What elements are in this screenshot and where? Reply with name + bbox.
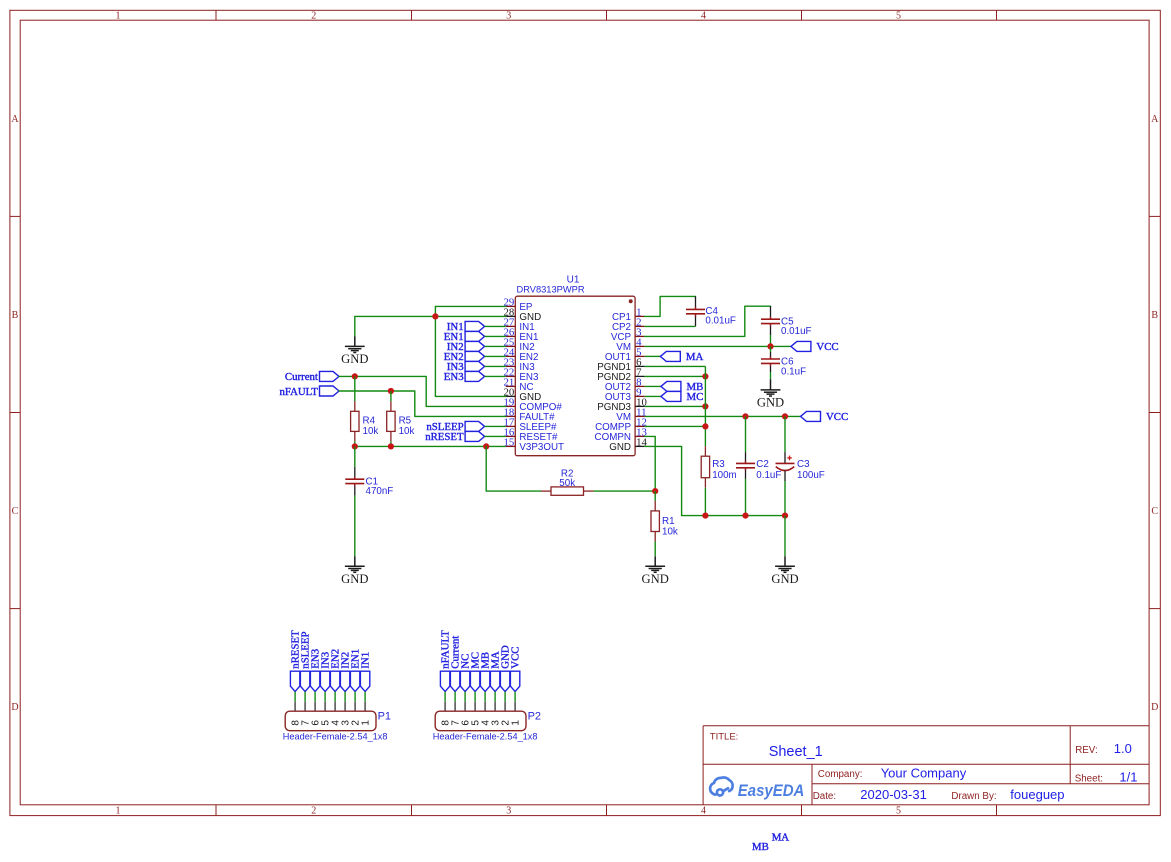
wire IN2 flag to pin — [485, 345, 506, 347]
U1 right pin 1 CP1 — [635, 315, 645, 317]
netflag NC on header P2 pin 6 — [460, 671, 469, 691]
svg-text:P1: P1 — [378, 710, 391, 722]
header P1 pin 3 lead — [344, 702, 346, 711]
svg-text:VCC: VCC — [826, 411, 848, 423]
junction rail/R5 — [388, 443, 394, 449]
wire OUT3 pin9 to MC flag — [645, 395, 661, 397]
svg-text:nFAULT: nFAULT — [279, 386, 318, 398]
svg-text:GND: GND — [642, 572, 669, 586]
resistor R5 leads — [390, 401, 392, 411]
netflag Current on header P2 pin 7 — [450, 671, 459, 691]
wire VM pin11 to VCC flag lower — [645, 415, 801, 417]
wire header P1 pin 6 — [314, 692, 316, 702]
junction rail/C3 — [782, 513, 788, 519]
svg-text:C2: C2 — [756, 459, 769, 470]
svg-text:B: B — [12, 310, 19, 321]
svg-text:2020-03-31: 2020-03-31 — [860, 787, 927, 802]
U1 left pin 29 EP — [506, 305, 516, 307]
header P1 pin 1 lead — [364, 702, 366, 711]
header P2 pin 7 lead — [454, 702, 456, 711]
capacitor C3 polarized top lead — [784, 452, 786, 463]
svg-text:3: 3 — [506, 11, 511, 22]
junction PGND1/PGND2 — [702, 373, 708, 379]
U1 pin-1 marker dot — [629, 299, 633, 303]
U1 right pin 3 VCP — [635, 335, 645, 337]
junction VM/C5/C6 — [767, 343, 773, 349]
svg-text:2: 2 — [311, 806, 316, 817]
svg-text:Current: Current — [285, 371, 318, 383]
U1 left pin 28 GND — [506, 315, 516, 317]
wire OUT2 pin8 to MB flag — [645, 385, 661, 387]
netflag EN3 — [465, 371, 485, 381]
capacitor C1 leads — [354, 467, 356, 479]
svg-text:10k: 10k — [363, 426, 379, 437]
U1 left pin 17 SLEEP# — [506, 425, 516, 427]
row tick marks left margin — [10, 215, 20, 217]
capacitor C6 leads — [770, 352, 772, 359]
wire nFAULT to FAULT# pin18 — [339, 391, 506, 416]
wire COMPN pin13 down — [645, 436, 656, 491]
resistor R5 body — [387, 411, 395, 431]
U1 left pin 27 IN1 — [506, 325, 516, 327]
resistor R3 body — [701, 456, 709, 478]
wire C2 top — [745, 416, 747, 452]
wire header P1 pin 3 — [344, 692, 346, 702]
netflag IN3 — [465, 361, 485, 371]
ground symbol bottom right — [784, 556, 786, 566]
svg-text:5: 5 — [896, 11, 901, 22]
U1 right pin 14 GND — [635, 445, 645, 447]
svg-text:Sheet:: Sheet: — [1075, 773, 1103, 784]
wire COMPP pin12 — [645, 425, 706, 427]
netflag VCC lower — [801, 411, 821, 421]
header P2 pin 3 lead — [494, 702, 496, 711]
svg-text:R1: R1 — [662, 516, 675, 527]
header P2 pin 6 lead — [464, 702, 466, 711]
netflag EN1 on header P1 pin 2 — [350, 671, 359, 691]
netflag VCC on header P2 pin 1 — [510, 671, 519, 691]
U1 right pin 2 CP2 — [635, 325, 645, 327]
wire header P1 pin 8 — [294, 692, 296, 702]
svg-text:Sheet_1: Sheet_1 — [769, 744, 823, 760]
svg-text:GND: GND — [609, 442, 631, 453]
netflag MC on header P2 pin 5 — [470, 671, 479, 691]
wire IN3 flag to pin — [485, 365, 506, 367]
header P1 pin 6 lead — [314, 702, 316, 711]
wire C3 bottom — [784, 481, 786, 516]
netflag VCC upper — [791, 341, 811, 351]
svg-text:VCC: VCC — [510, 646, 522, 668]
netflag IN1 on header P1 pin 1 — [360, 671, 369, 691]
netflag MB on header P2 pin 4 — [480, 671, 489, 691]
wire header P2 pin 3 — [494, 692, 496, 702]
capacitor C4 leads — [695, 296, 697, 309]
svg-text:GND: GND — [771, 572, 798, 586]
svg-text:1/1: 1/1 — [1119, 770, 1137, 785]
header P1 pin 5 lead — [324, 702, 326, 711]
resistor R1 body — [651, 511, 659, 532]
wire header P1 pin 4 — [334, 692, 336, 702]
wire PGND3 pin10 — [645, 405, 706, 407]
resistor R2 body — [551, 487, 584, 495]
wire Current to COMPO# pin19 — [339, 376, 506, 406]
U1 left pin 23 IN3 — [506, 365, 516, 367]
netflag nRESET — [465, 431, 485, 441]
svg-text:MA: MA — [772, 831, 790, 843]
U1 left pin 24 EN2 — [506, 355, 516, 357]
netflag IN1 — [465, 321, 485, 331]
netflag MA on header P2 pin 3 — [490, 671, 499, 691]
svg-text:D: D — [1151, 702, 1158, 713]
svg-text:4: 4 — [701, 806, 706, 817]
svg-text:1: 1 — [361, 720, 372, 726]
resistor R1 leads — [654, 501, 656, 511]
svg-text:Header-Female-2.54_1x8: Header-Female-2.54_1x8 — [283, 732, 388, 742]
netflag nSLEEP on header P1 pin 7 — [300, 671, 309, 691]
header P1 pin 7 lead — [304, 702, 306, 711]
row tick marks right margin — [1149, 215, 1160, 217]
svg-text:VCC: VCC — [816, 341, 838, 353]
U1 right pin 9 OUT3 — [635, 395, 645, 397]
wire R1 top — [654, 491, 656, 501]
wire PGND2 pin7 — [645, 375, 706, 377]
svg-text:10k: 10k — [399, 426, 415, 437]
svg-text:GND: GND — [341, 572, 368, 586]
wire C6 top — [770, 346, 772, 352]
U1 right pin 8 OUT2 — [635, 385, 645, 387]
column tick marks bottom margin — [215, 805, 217, 816]
svg-text:DRV8313PWPR: DRV8313PWPR — [517, 284, 585, 294]
capacitor C3 bottom lead — [784, 471, 786, 481]
U1 right pin 13 COMPN — [635, 435, 645, 437]
svg-text:B: B — [1151, 310, 1158, 321]
netflag MA — [660, 351, 680, 361]
U1 left pin 26 EN1 — [506, 335, 516, 337]
wire header P2 pin 8 — [444, 692, 446, 702]
svg-text:Drawn By:: Drawn By: — [951, 791, 996, 802]
wire EN2 flag to pin — [485, 355, 506, 357]
svg-text:10k: 10k — [662, 527, 678, 538]
header P2 pin 4 lead — [484, 702, 486, 711]
svg-text:TITLE:: TITLE: — [710, 732, 739, 743]
svg-text:Your Company: Your Company — [881, 766, 967, 781]
svg-text:Date:: Date: — [813, 791, 836, 802]
svg-text:nRESET: nRESET — [425, 431, 464, 443]
svg-text:2: 2 — [311, 11, 316, 22]
svg-text:C3: C3 — [797, 459, 810, 470]
wire C3 top — [784, 416, 786, 452]
capacitor C3 plus sign — [787, 457, 792, 459]
U1 right pin 7 PGND2 — [635, 375, 645, 377]
svg-text:C: C — [12, 506, 19, 517]
title block lines — [703, 725, 1149, 727]
wire header P2 pin 1 — [514, 692, 516, 702]
resistor R4 body — [351, 411, 359, 431]
wire nSLEEP to SLEEP# pin17 — [485, 425, 506, 427]
header P2 pin 5 lead — [474, 702, 476, 711]
header P1 pin 4 lead — [334, 702, 336, 711]
U1 left pin 22 EN3 — [506, 375, 516, 377]
svg-text:1.0: 1.0 — [1114, 741, 1132, 756]
svg-text:EasyEDA: EasyEDA — [738, 781, 805, 800]
svg-text:R3: R3 — [712, 459, 725, 470]
netflag nRESET on header P1 pin 8 — [290, 671, 299, 691]
wire C6 bottom — [770, 372, 772, 379]
svg-text:EN3: EN3 — [444, 371, 464, 383]
wire PGND vertical to R3 — [704, 366, 706, 446]
connector P2 body Header-Female-2.54_1x8 — [435, 711, 526, 731]
capacitor C2 plates — [745, 461, 747, 464]
wire C2 bottom — [745, 479, 747, 516]
netflag EN1 — [465, 331, 485, 341]
svg-text:MA: MA — [686, 351, 704, 363]
U1 left pin 20 GND — [506, 395, 516, 397]
U1 right pin 6 PGND1 — [635, 365, 645, 367]
header P2 pin 1 lead — [514, 702, 516, 711]
ground symbol below C1 — [354, 556, 356, 566]
wire rail down to ground — [784, 516, 786, 557]
U1 left pin 19 COMPO# — [506, 405, 516, 407]
svg-text:0.01uF: 0.01uF — [781, 326, 812, 337]
svg-text:50k: 50k — [559, 478, 575, 489]
wire IN1 flag to pin — [485, 325, 506, 327]
wire V3P3OUT rail — [355, 445, 506, 447]
capacitor C5 leads — [770, 306, 772, 319]
wire header P1 pin 2 — [354, 692, 356, 702]
svg-text:A: A — [1151, 114, 1159, 125]
wire OUT1 pin5 to MA flag — [645, 355, 661, 357]
netflag nFAULT on header P2 pin 8 — [440, 671, 449, 691]
wire GND pin14 down to bottom rail — [645, 446, 706, 515]
capacitor C3 top plate — [776, 462, 795, 464]
svg-text:GND: GND — [757, 396, 784, 410]
wire nRESET to RESET# pin16 — [485, 435, 506, 437]
capacitor C2 leads — [745, 452, 747, 463]
capacitor C6 plates — [770, 356, 772, 359]
svg-text:1: 1 — [116, 11, 121, 22]
wire CP1 pin1 to C4 top — [645, 296, 696, 316]
junction PGND3 — [702, 403, 708, 409]
U1 left pin 16 RESET# — [506, 435, 516, 437]
netflag GND on header P2 pin 2 — [500, 671, 509, 691]
svg-text:470nF: 470nF — [366, 486, 394, 497]
netflag nSLEEP — [465, 421, 485, 431]
header P1 pin 2 lead — [354, 702, 356, 711]
junction rail/R4 — [352, 443, 358, 449]
ground symbol below C6 — [770, 379, 772, 390]
header P2 pin 2 lead — [504, 702, 506, 711]
wire header P2 pin 6 — [464, 692, 466, 702]
resistor R3 leads — [704, 446, 706, 456]
wire GND pin28 to ground symbol — [355, 316, 506, 336]
netflag IN2 — [465, 341, 485, 351]
wire R5 bottom segment — [390, 441, 392, 446]
junction EP/GND net — [432, 313, 438, 319]
U1 left pin 21 NC — [506, 385, 516, 387]
capacitor C3 curved bottom plate — [776, 467, 794, 471]
wire C1 top — [354, 446, 356, 467]
U1 right pin 5 OUT1 — [635, 355, 645, 357]
EasyEDA logo cloud icon — [710, 777, 733, 795]
netflag MC — [661, 391, 681, 401]
svg-text:0.1uF: 0.1uF — [756, 470, 781, 481]
svg-text:4: 4 — [701, 11, 706, 22]
wire header P1 pin 1 — [364, 692, 366, 702]
netflag nFAULT — [320, 386, 340, 396]
svg-text:GND: GND — [341, 352, 368, 366]
junction Current/R4 — [352, 373, 358, 379]
junction R2/R1/COMPN — [652, 488, 658, 494]
svg-text:A: A — [11, 114, 19, 125]
wire header P1 pin 5 — [324, 692, 326, 702]
svg-text:0.01uF: 0.01uF — [705, 316, 736, 327]
svg-text:100uF: 100uF — [797, 470, 825, 481]
svg-text:Header-Female-2.54_1x8: Header-Female-2.54_1x8 — [433, 732, 538, 742]
netflag IN2 on header P1 pin 3 — [340, 671, 349, 691]
wire R1 bottom — [654, 542, 656, 557]
svg-text:V3P3OUT: V3P3OUT — [519, 442, 564, 453]
svg-text:P2: P2 — [528, 710, 541, 722]
wire VCP pin3 to C5 top — [645, 306, 771, 336]
U1 right pin 4 VM — [635, 345, 645, 347]
svg-text:100m: 100m — [712, 470, 737, 481]
wire header P2 pin 7 — [454, 692, 456, 702]
wire CP2 pin2 to C4 bottom — [645, 325, 696, 327]
wire R5 top segment — [390, 391, 392, 401]
netflag IN3 on header P1 pin 5 — [320, 671, 329, 691]
netflag EN3 on header P1 pin 6 — [310, 671, 319, 691]
svg-text:REV:: REV: — [1075, 745, 1098, 756]
wire header P2 pin 5 — [474, 692, 476, 702]
ground symbol below R1 — [654, 556, 656, 566]
wire bottom rail — [705, 515, 785, 517]
svg-text:R4: R4 — [363, 415, 376, 426]
connector P1 body Header-Female-2.54_1x8 — [285, 711, 376, 731]
wire rail to R2 — [486, 446, 541, 491]
junction rail/R2 branch — [483, 443, 489, 449]
resistor R2 leads — [541, 490, 551, 492]
netflag Current — [320, 371, 340, 381]
header P1 pin 8 lead — [294, 702, 296, 711]
svg-text:C: C — [1151, 506, 1158, 517]
wire header P2 pin 2 — [504, 692, 506, 702]
svg-text:3: 3 — [506, 806, 511, 817]
U1 left pin 25 IN2 — [506, 345, 516, 347]
IC U1 body DRV8313PWPR — [515, 296, 635, 456]
U1 left pin 18 FAULT# — [506, 415, 516, 417]
wire C1 bottom — [354, 496, 356, 557]
svg-text:D: D — [11, 702, 18, 713]
svg-text:Company:: Company: — [818, 769, 863, 780]
svg-text:IN1: IN1 — [360, 652, 372, 669]
junction rail/R3 — [702, 513, 708, 519]
wire EN3 flag to pin — [485, 375, 506, 377]
junction VM/C3 — [782, 413, 788, 419]
wire header P2 pin 4 — [484, 692, 486, 702]
svg-text:foueguep: foueguep — [1010, 787, 1064, 802]
wire header P1 pin 7 — [304, 692, 306, 702]
capacitor C5 plates — [770, 316, 772, 319]
junction VM/C2 — [742, 413, 748, 419]
junction rail/C2 — [742, 513, 748, 519]
wire VM pin4 to VCC flag — [645, 345, 791, 347]
wire EP pin29 to GND net vertical — [435, 306, 505, 396]
svg-text:0.1uF: 0.1uF — [781, 366, 806, 377]
resistor R4 leads — [354, 401, 356, 411]
junction COMPP — [702, 423, 708, 429]
wire PGND1 pin6 — [645, 365, 706, 367]
svg-text:1: 1 — [511, 720, 522, 726]
capacitor C1 plates — [354, 476, 356, 479]
U1 right pin 11 VM — [635, 415, 645, 417]
U1 right pin 12 COMPP — [635, 425, 645, 427]
junction nFAULT/R5 — [388, 388, 394, 394]
U1 right pin 10 PGND3 — [635, 405, 645, 407]
header P2 pin 8 lead — [444, 702, 446, 711]
column tick marks top margin — [215, 10, 217, 20]
wire R4 bottom segment — [354, 441, 356, 446]
netflag EN2 — [465, 351, 485, 361]
wire EN1 flag to pin — [485, 335, 506, 337]
svg-text:MC: MC — [687, 391, 704, 403]
wire R3 bottom — [704, 488, 706, 516]
netflag EN2 on header P1 pin 4 — [330, 671, 339, 691]
wire R4 top segment — [354, 376, 356, 401]
wire R2 right to COMPN node — [594, 490, 656, 492]
svg-text:MB: MB — [752, 841, 769, 853]
svg-text:1: 1 — [116, 806, 121, 817]
wire C5 bottom to VM net — [770, 335, 772, 346]
capacitor C4 plates — [695, 307, 697, 310]
ground symbol top-left GND — [354, 336, 356, 346]
netflag MB — [661, 381, 681, 391]
svg-text:5: 5 — [896, 806, 901, 817]
svg-text:R5: R5 — [399, 415, 412, 426]
U1 left pin 15 V3P3OUT — [506, 445, 516, 447]
